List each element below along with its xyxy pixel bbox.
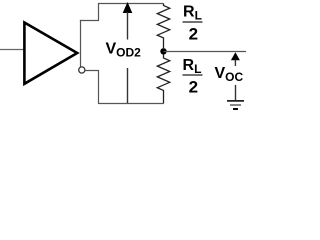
- label RL/2 bottom: [183, 57, 203, 97]
- input wire: [0, 49, 24, 51]
- inverting output bubble: [79, 67, 85, 73]
- arrow VOD2: [123, 2, 133, 103]
- svg-text:VOD2: VOD2: [106, 40, 142, 59]
- node junction dot: [160, 48, 166, 54]
- resistor R_L/2 bottom: [157, 54, 169, 104]
- wire top path horizontal: [80, 4, 164, 21]
- svg-text:RL: RL: [183, 57, 202, 76]
- ground: [227, 85, 244, 109]
- wire output bar: [80, 20, 82, 67]
- svg-text:RL: RL: [183, 3, 202, 22]
- svg-text:2: 2: [189, 25, 198, 44]
- label RL/2 top: [183, 3, 203, 43]
- wire bottom path: [85, 71, 164, 104]
- svg-text:VOC: VOC: [215, 65, 244, 84]
- resistor R_L/2 top: [157, 4, 169, 49]
- arrow VOC: [231, 52, 240, 66]
- op-amp U1 (driver triangle): [24, 23, 77, 84]
- svg-text:2: 2: [189, 78, 198, 97]
- wire node to right edge: [164, 51, 247, 53]
